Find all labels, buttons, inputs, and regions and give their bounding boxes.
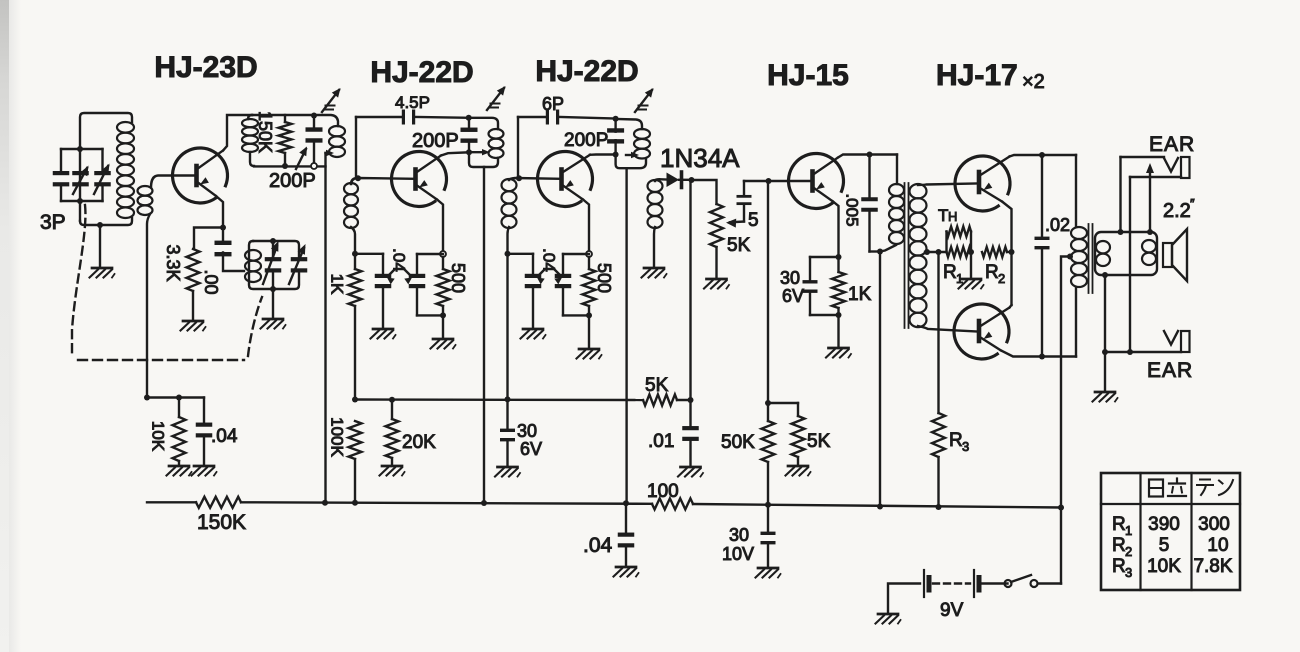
node rail battery riser: [1058, 505, 1064, 511]
wire Q5a collector top rail: [1010, 155, 1077, 157]
capacitor C1a fixed section: [53, 149, 70, 201]
node output tap: [1067, 254, 1073, 260]
svg-text:2.2: 2.2: [1163, 200, 1191, 222]
label 1K emitter: [848, 284, 872, 305]
label .01: [648, 431, 674, 452]
capacitor 6P neutralizing: [546, 110, 559, 125]
ground 500 stage2: [431, 339, 456, 349]
svg-text:5: 5: [748, 210, 759, 231]
battery 9V cell 1: [924, 570, 929, 597]
node IFT2 collector junction: [466, 149, 472, 155]
label 5 coupling cap: [748, 210, 759, 231]
svg-text:H: H: [948, 209, 957, 224]
capacitor C1b variable section (arrow): [72, 166, 89, 195]
wire Q3 emitter down: [583, 200, 589, 252]
ground 500 stage3: [577, 349, 602, 359]
table values Ten column: [1193, 514, 1232, 577]
table header Ten (katakana): [1197, 480, 1233, 496]
capacitor .02: [1035, 155, 1050, 357]
svg-text:HJ-22D: HJ-22D: [535, 55, 638, 88]
label 2.2 inch: [1163, 196, 1195, 222]
inductor IFT1 primary left winding: [242, 115, 258, 166]
wire .005 bottom to primary return: [870, 250, 881, 252]
node loop bottom ground: [1102, 272, 1108, 278]
capacitor osc trimmer (right): [289, 244, 307, 284]
svg-text:.04: .04: [540, 248, 559, 272]
svg-text:10K: 10K: [149, 421, 168, 452]
thermistor TH: [947, 227, 972, 253]
wire Q2 emitter down: [437, 200, 443, 252]
svg-text:3.3K: 3.3K: [163, 244, 183, 281]
label EAR top: [1149, 133, 1195, 156]
svg-text:10K: 10K: [1147, 556, 1181, 577]
label 500 stage2: [448, 263, 468, 293]
label R3: [949, 430, 969, 454]
wire secondary top to Q5a base: [918, 184, 977, 186]
earphone jack bottom (V contact): [1164, 331, 1190, 352]
label .04 rail: [583, 534, 613, 557]
svg-text:30: 30: [517, 421, 537, 441]
node detector output: [689, 177, 695, 183]
svg-text:7.8K: 7.8K: [1193, 556, 1232, 577]
wire Q4 collector top: [838, 155, 897, 158]
wire coupling cap to Q4 base: [744, 180, 811, 182]
capacitor .04 base bypass stage2: [355, 254, 391, 327]
capacitor 30MF 6V emitter: [803, 257, 839, 315]
wire divider branch: [768, 402, 798, 404]
diode 1N34A detector: [667, 172, 692, 188]
table row labels R1 R2 R3: [1112, 514, 1132, 580]
svg-text:1N34A: 1N34A: [660, 143, 740, 173]
wire battery to ground: [888, 584, 920, 613]
svg-text:R: R: [1112, 556, 1126, 577]
resistor 20K: [386, 400, 399, 464]
wire IFT1 top edge: [252, 115, 338, 126]
resistor R3: [932, 413, 945, 508]
ground detector coil: [642, 268, 667, 278]
wire detector coil top to diode: [655, 179, 667, 181]
wire antenna loop (L1 frame): [80, 113, 132, 225]
label 500 stage3: [594, 263, 614, 293]
svg-text:R: R: [943, 262, 957, 283]
svg-text:100: 100: [647, 481, 679, 502]
ground 20K: [380, 466, 405, 476]
inductor IFT3 primary: [634, 129, 650, 159]
wire IFT2 top edge: [469, 118, 498, 129]
wire 500 to ground stage3: [588, 315, 590, 347]
inductor IFT2 secondary: [502, 179, 517, 228]
wire oscillator tank frame: [249, 241, 299, 289]
svg-text:5K: 5K: [727, 235, 751, 256]
node 500 bottom stage3: [586, 306, 592, 318]
inductor IFT1 secondary: [344, 183, 358, 228]
svg-text:R: R: [985, 262, 999, 283]
capacitor 4.5P neutralizing: [402, 110, 415, 125]
node bias ground junction: [968, 249, 974, 255]
svg-text:2: 2: [998, 271, 1005, 286]
wire Q5b emitter join: [1010, 305, 1012, 308]
capacitor 200P IFT2: [461, 118, 478, 152]
node emitter line R2: [1009, 249, 1015, 255]
svg-text:500: 500: [594, 263, 614, 293]
svg-text:6V: 6V: [520, 439, 542, 459]
label 50K: [721, 432, 755, 453]
svg-text:150K: 150K: [197, 511, 246, 534]
node AVC right end: [688, 397, 694, 403]
node IFT2 top junction: [466, 115, 472, 121]
inductor voice coil: [1142, 240, 1156, 265]
svg-text:5: 5: [1159, 535, 1170, 556]
ground speaker circuit: [1093, 392, 1118, 402]
svg-text:.01: .01: [648, 431, 674, 452]
wire IFT2 core arrow: [469, 149, 490, 155]
svg-text:.04: .04: [390, 248, 409, 272]
resistor 1K stage2 bias: [349, 254, 362, 400]
ground .01: [678, 467, 703, 477]
svg-text:.02: .02: [1045, 215, 1070, 235]
svg-text:4.5P: 4.5P: [395, 93, 430, 112]
wire stage2 top with 4.5P: [356, 116, 469, 119]
node osc tank bottom: [270, 286, 276, 292]
capacitor .005: [861, 155, 878, 252]
label 200P stage3: [564, 130, 608, 151]
node Q1 emitter: [220, 225, 226, 231]
capacitor osc padder (center): [263, 241, 281, 289]
label 4.5P: [395, 93, 430, 112]
wire Q4 base bias line down: [767, 181, 769, 421]
capacitor .04 stage1: [196, 398, 213, 465]
table header Hitachi (kanji): [1149, 479, 1186, 497]
wire detector coil bottom to ground: [654, 227, 655, 266]
node antenna gang bottom: [77, 198, 83, 204]
svg-text:HJ-23D: HJ-23D: [154, 51, 257, 84]
wire stage3 base line down to AVC: [506, 254, 508, 400]
transistor Q5b HJ-17 (lower output): [954, 304, 1009, 359]
wire IFT2 secondary bottom down: [508, 227, 510, 254]
wire R2 to emitter line: [1007, 251, 1012, 253]
resistor 5K bias: [792, 403, 805, 464]
wire IFT2 secondary top to Q3 base: [509, 178, 560, 180]
resistor R2: [982, 247, 1007, 257]
node IFT1 bottom 200P (open): [311, 163, 317, 169]
inductor L1 antenna coil: [117, 122, 134, 218]
label 150K: [255, 111, 275, 153]
transistor Q2 HJ-22D (1st IF amp): [392, 151, 447, 206]
wire Q4 emitter down: [833, 202, 839, 258]
ground 5K bias: [786, 466, 811, 476]
ground antenna circuit: [90, 268, 115, 278]
core T2 driver transformer: [905, 183, 909, 328]
wire IFT1 secondary bottom down: [351, 227, 355, 254]
wire 500 to ground stage2: [442, 315, 444, 337]
resistor 1K emitter: [832, 257, 845, 308]
scanned page left edge shading: [0, 0, 21, 652]
wiper arrow volume: [726, 219, 744, 228]
wire IFT1 bottom edge: [254, 165, 326, 167]
capacitor .04 emitter bypass stage3: [555, 254, 589, 315]
label 100: [647, 481, 679, 502]
node bias divider top: [765, 400, 771, 406]
node osc tank top: [270, 238, 276, 244]
wire switch to riser: [1039, 582, 1062, 584]
wire loop to ground: [1104, 275, 1106, 352]
wire center tap to R3: [937, 252, 939, 413]
resistor 50K bias: [762, 421, 775, 505]
ground bias network: [959, 279, 984, 289]
wire collector to driver primary: [896, 155, 898, 185]
svg-text:500: 500: [448, 263, 468, 293]
capacitor 30MF 6V AVC: [500, 399, 515, 465]
node IFT1 bottom 150K: [282, 163, 288, 169]
label .04 stage2: [387, 248, 412, 284]
wire top jack feed: [1121, 157, 1165, 232]
svg-text:6P: 6P: [542, 94, 564, 114]
wire Q2 collector to IFT2: [441, 152, 469, 155]
svg-text:.04: .04: [583, 534, 613, 557]
wire Q3 collector to IFT3: [590, 153, 616, 156]
label 1K stage2: [328, 274, 347, 295]
trimmer mark IFT1: [322, 88, 341, 112]
node Q2 base wire: [355, 175, 361, 181]
svg-text:R: R: [1112, 535, 1126, 556]
capacitor .04 base bypass stage3: [508, 254, 542, 327]
wire L1 secondary to Q1 base: [147, 176, 195, 398]
trimmer mark IFT3: [635, 88, 654, 112]
wire collector rail to output primary: [1075, 155, 1077, 227]
wire dashed tuning gang link: [72, 205, 262, 360]
node rail 50K: [765, 502, 771, 508]
label transistor type HJ-22D (1st IF): [370, 56, 473, 89]
label 9V: [940, 600, 964, 621]
svg-text:30: 30: [729, 525, 749, 545]
svg-text:5K: 5K: [807, 431, 831, 452]
resistor 150K IFT1 damping: [279, 115, 292, 166]
svg-text:3P: 3P: [40, 211, 66, 234]
node bottom jack junction: [1127, 349, 1133, 355]
svg-text:3: 3: [1125, 565, 1132, 580]
transistor Q5a HJ-17 (upper output): [955, 156, 1010, 211]
capacitor bus (tuning gang frame): [61, 149, 103, 201]
label .005: [843, 193, 862, 226]
wire battery riser / center tap: [1061, 257, 1070, 584]
wire IFT1 return to bottom rail: [326, 150, 335, 503]
wire bottom rail left: [147, 501, 196, 503]
resistor R1: [947, 247, 972, 257]
node Q3 base wire: [516, 175, 522, 181]
node stage2 base bias: [352, 251, 358, 257]
capacitor 30MF 10V: [761, 505, 776, 566]
wire driver B- return to rail: [879, 252, 881, 507]
wire stage2 top-left drop: [355, 117, 357, 177]
svg-text:HJ-22D: HJ-22D: [370, 56, 473, 89]
label 5K volume: [727, 235, 751, 256]
node rail IFT1: [322, 500, 328, 506]
wire detector load line down: [689, 180, 691, 400]
ground volume pot: [704, 279, 729, 289]
label 5K AVC: [645, 375, 669, 396]
svg-text:50K: 50K: [721, 432, 755, 453]
ground .04 stage3: [521, 329, 546, 339]
wire IFT3 return to bottom rail: [625, 168, 627, 503]
label 100K: [328, 417, 347, 457]
inductor T2 driver primary: [889, 184, 904, 244]
node AVC left end: [352, 397, 358, 403]
node .02 top: [1039, 152, 1045, 158]
ground 30MF 10V: [756, 568, 781, 578]
node Q2 emitter to 500 (open): [440, 251, 446, 257]
node 20K top: [389, 397, 395, 403]
wire Q1 collector to IFT1: [223, 115, 252, 151]
ground battery: [876, 614, 901, 624]
node driver primary bottom: [877, 249, 883, 255]
resistor 500 stage3: [583, 257, 596, 306]
svg-text:1: 1: [1125, 523, 1132, 538]
svg-text:R: R: [949, 430, 963, 451]
wire emitter cap to osc coil: [223, 253, 244, 272]
svg-text:300: 300: [1198, 514, 1230, 535]
svg-text:200P: 200P: [269, 170, 316, 192]
inductor IFT1 primary right winding: [329, 126, 345, 157]
core T3 output transformer: [1089, 224, 1093, 293]
inductor T3 output primary: [1071, 227, 1087, 287]
ground oscillator: [261, 319, 286, 329]
wire speaker ground drop: [1104, 352, 1106, 390]
wire center tap: [925, 251, 947, 253]
wire driver primary bottom: [880, 245, 896, 252]
inductor T3 secondary: [1096, 241, 1110, 266]
svg-text:10V: 10V: [722, 544, 754, 564]
capacitor .01 AVC filter: [682, 400, 699, 465]
label 1N34A: [660, 143, 740, 173]
capacitor 5MF coupling: [737, 181, 752, 222]
label 20K: [402, 432, 436, 453]
wire emitter vertical: [1002, 202, 1012, 306]
node rail driver return: [877, 504, 883, 510]
resistor 500 stage2: [437, 257, 450, 306]
label EAR bottom: [1147, 359, 1193, 382]
node IFT3 collector junction: [613, 152, 619, 158]
wire output primary bottom: [1075, 287, 1077, 357]
wire bottom jack feed: [1105, 351, 1181, 353]
label R1: [943, 262, 963, 286]
table frame: [1101, 473, 1240, 590]
trimmer mark IFT2: [487, 86, 506, 110]
node stage1 bias junction: [144, 395, 150, 401]
ground Q4 emitter: [826, 348, 851, 358]
svg-text:EAR: EAR: [1147, 359, 1193, 382]
label 3P: [40, 211, 66, 234]
label .04 stage3: [537, 248, 562, 284]
wire IFT3 bottom edge: [616, 155, 646, 169]
label transistor type HJ-23D: [154, 51, 257, 84]
earphone jack top (V contact): [1164, 157, 1190, 178]
label 200P stage2: [412, 130, 459, 152]
transistor Q1 HJ-23D (converter): [173, 148, 228, 203]
resistor 5K AVC: [643, 395, 677, 406]
label .00: [201, 269, 221, 294]
wire arrow to top jack: [1146, 163, 1154, 232]
svg-text:30: 30: [780, 268, 800, 288]
label 150K bottom: [197, 511, 246, 534]
capacitor .04 rail bypass: [618, 503, 635, 565]
ground 30MF 6V: [495, 467, 520, 477]
svg-text:6V: 6V: [782, 286, 804, 306]
wire Q1 emitter down: [216, 196, 223, 228]
wire 3.3K to ground: [192, 291, 194, 319]
wire top jack sleeve: [1130, 177, 1181, 352]
svg-text:HJ-15: HJ-15: [767, 59, 849, 92]
resistor 100K: [349, 421, 362, 503]
node Q3 emitter to 500 (open): [586, 251, 592, 257]
capacitor C1c variable section (arrow): [94, 149, 111, 201]
node .005 top: [867, 152, 873, 158]
svg-text:20K: 20K: [402, 432, 436, 453]
table values Hitachi column: [1147, 514, 1181, 577]
wire secondary bottom to Q5b base: [918, 326, 977, 332]
svg-text:1K: 1K: [848, 284, 872, 305]
inductor IFT2 primary: [489, 129, 504, 158]
wire Q5b collector bottom: [1001, 351, 1076, 357]
node rail IFT3 junction: [623, 500, 629, 506]
wire IFT3 top edge: [616, 119, 642, 129]
label 30 10V: [722, 525, 754, 564]
label R2: [985, 262, 1005, 286]
svg-text:200P: 200P: [412, 130, 459, 152]
wire 5K AVC to node: [677, 399, 691, 401]
wire bottom rail right: [693, 504, 1061, 508]
wire 1K to ground: [837, 315, 839, 346]
svg-text:2: 2: [1125, 544, 1132, 559]
wire IFT3 core arrow: [626, 152, 639, 158]
inductor T2 driver secondary: [910, 184, 927, 327]
svg-text:10: 10: [1207, 535, 1228, 556]
wire IFT2 return to bottom rail: [483, 167, 485, 503]
resistor 3.3K: [187, 249, 200, 291]
wire speaker loop: [1095, 232, 1157, 275]
svg-text:.005: .005: [843, 193, 862, 226]
node rail 100K: [352, 500, 358, 506]
node ground wire junction: [1102, 349, 1108, 355]
transistor Q3 HJ-22D (2nd IF amp): [538, 151, 593, 206]
label transistor type HJ-22D (2nd IF): [535, 55, 638, 88]
node stage3 AVC junction: [505, 396, 511, 402]
resistor 10K: [173, 398, 186, 465]
svg-text:.00: .00: [201, 269, 221, 294]
wire detector to volume pot: [692, 180, 717, 204]
label 3.3K: [163, 244, 183, 281]
svg-text:×2: ×2: [1022, 71, 1045, 93]
transistor Q4 HJ-15 (driver): [789, 153, 844, 208]
svg-text:1K: 1K: [328, 274, 347, 295]
svg-text:150K: 150K: [255, 111, 275, 153]
label transistor type HJ-17 x2: [936, 59, 1045, 93]
node Q4 emitter: [836, 254, 842, 260]
label .04 stage1: [211, 426, 238, 447]
ground .04 stage1: [192, 466, 217, 476]
capacitor .001 emitter bypass: [215, 228, 232, 257]
ground .04 stage2: [371, 329, 396, 339]
svg-text:3: 3: [962, 439, 969, 454]
ground 3.3K: [181, 321, 206, 331]
svg-text:9V: 9V: [940, 600, 964, 621]
svg-text:R: R: [1112, 514, 1126, 535]
wire stage3 top with 6P: [518, 117, 616, 119]
battery 9V cell 2: [974, 570, 979, 597]
potentiometer 5K volume: [710, 204, 723, 247]
svg-text:5K: 5K: [645, 375, 669, 396]
node antenna gang top: [77, 146, 83, 152]
node IFT3 top junction: [613, 116, 619, 122]
